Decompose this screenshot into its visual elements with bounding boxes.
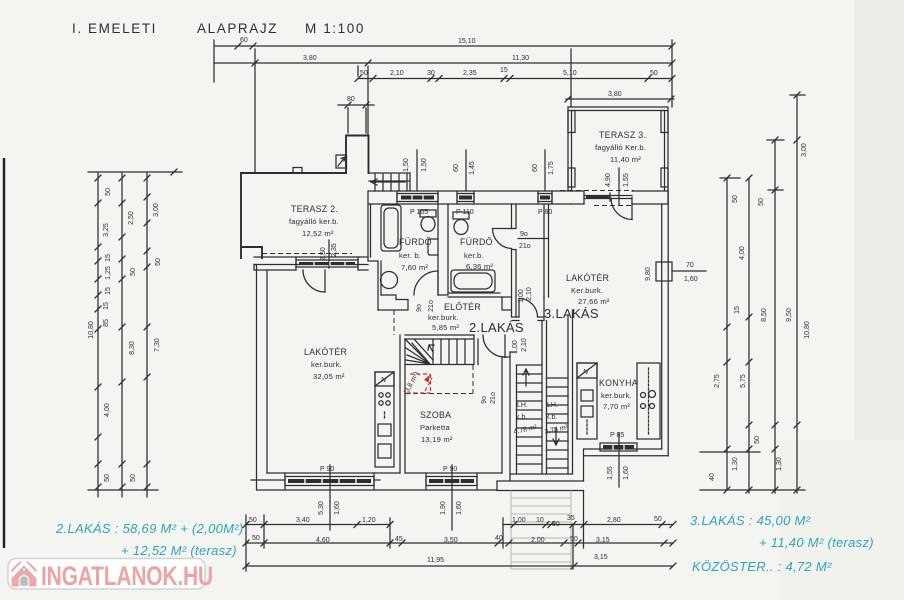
svg-text:Parketta: Parketta (420, 423, 450, 432)
svg-text:P 90: P 90 (443, 466, 457, 473)
svg-text:10,80: 10,80 (88, 321, 95, 339)
svg-text:7,30: 7,30 (154, 338, 161, 352)
svg-text:13,19 m²: 13,19 m² (421, 435, 453, 444)
svg-text:FÜRDŐ: FÜRDŐ (399, 237, 432, 247)
left dimension line 3 (144, 169, 177, 497)
furdo 7,60 washing machine (381, 272, 398, 289)
svg-text:k.b.: k.b. (546, 414, 557, 421)
bottom wall left section (257, 473, 503, 490)
svg-text:85: 85 (103, 319, 110, 327)
svg-text:2,50: 2,50 (320, 247, 327, 261)
svg-text:1,50: 1,50 (403, 158, 410, 172)
svg-text:3.LAKÁS : 45,00 M²: 3.LAKÁS : 45,00 M² (690, 513, 811, 528)
svg-text:60: 60 (240, 37, 248, 44)
top wall under terasz3 with sliding door (560, 191, 668, 206)
svg-text:Ker.burk.: Ker.burk. (571, 286, 603, 295)
svg-text:35: 35 (567, 515, 575, 522)
teal note 2.lakas (55, 521, 244, 558)
svg-text:2,00: 2,00 (531, 537, 545, 544)
svg-text:SZOBA: SZOBA (420, 410, 451, 420)
svg-text:11,30: 11,30 (512, 55, 529, 62)
svg-text:fagyálló ker.b.: fagyálló ker.b. (289, 217, 339, 226)
stairwell left flight (513, 365, 542, 464)
svg-text:1,90: 1,90 (440, 501, 447, 515)
svg-text:9o: 9o (416, 304, 423, 312)
svg-text:15: 15 (734, 306, 741, 314)
svg-text:90: 90 (552, 521, 560, 528)
svg-text:2.LAKÁS: 2.LAKÁS (469, 320, 524, 335)
svg-text:50: 50 (654, 516, 662, 523)
svg-text:50: 50 (754, 436, 761, 444)
top dimension line 3,80 / 11,30 (214, 55, 675, 66)
wall between the two bathrooms (438, 204, 448, 295)
svg-text:9,50: 9,50 (786, 308, 793, 322)
svg-text:4,00: 4,00 (739, 246, 746, 260)
kitchen strip in lakoter (375, 372, 394, 467)
svg-text:4,60: 4,60 (316, 537, 330, 544)
wall band under terasz2 (lakoter top wall) (254, 257, 368, 270)
svg-text:ker.b.: ker.b. (464, 251, 484, 260)
svg-text:LAKÓTÉR: LAKÓTÉR (304, 347, 347, 357)
right outer wall (662, 190, 669, 456)
teal note 3.lakas (690, 513, 874, 550)
svg-text:ker.burk.: ker.burk. (428, 313, 459, 322)
svg-text:3,50: 3,50 (444, 537, 458, 544)
svg-text:40: 40 (495, 535, 503, 542)
szoba label (420, 410, 453, 444)
internal stair of 2.lakas (403, 335, 478, 396)
konyha label (599, 378, 638, 411)
svg-text:2,80: 2,80 (607, 517, 621, 524)
right dimension line C (767, 137, 784, 493)
svg-text:50: 50 (252, 535, 260, 542)
right wall window pier (645, 262, 706, 283)
svg-text:INGATLANOK.HU: INGATLANOK.HU (41, 562, 213, 592)
svg-text:15: 15 (500, 67, 508, 74)
svg-text:50: 50 (155, 258, 162, 266)
svg-text:80: 80 (347, 96, 355, 103)
left wall of building (254, 265, 267, 491)
svg-text:7,60 m²: 7,60 m² (401, 263, 428, 272)
svg-text:50: 50 (130, 268, 137, 276)
bottom dimension vertical extensions (246, 491, 584, 571)
svg-text:1,55: 1,55 (623, 173, 630, 187)
svg-text:LH.: LH. (547, 402, 558, 409)
svg-text:70: 70 (686, 262, 694, 269)
right dimension bottom connector (700, 452, 805, 490)
svg-text:7,70 m²: 7,70 m² (603, 402, 630, 411)
svg-text:9,80: 9,80 (645, 267, 652, 281)
top dimension line 15,10 (214, 37, 675, 82)
svg-text:1,60: 1,60 (623, 466, 630, 480)
svg-text:50: 50 (104, 474, 111, 482)
left dimension line 1 (10,80 overall) (88, 172, 182, 497)
svg-text:KONYHA: KONYHA (599, 378, 638, 388)
svg-text:ker. b.: ker. b. (399, 251, 421, 260)
svg-text:3.LAKÁS: 3.LAKÁS (544, 306, 599, 321)
furdo 6,36 fixtures: toilet (453, 212, 469, 235)
door eloter to szoba corridor (481, 335, 505, 404)
svg-text:15,10: 15,10 (458, 38, 476, 45)
svg-text:32,05 m²: 32,05 m² (313, 372, 345, 381)
svg-text:3,15: 3,15 (594, 554, 608, 561)
window P80 top (538, 191, 552, 216)
svg-text:40: 40 (709, 473, 716, 481)
corridor door label (512, 338, 528, 354)
chimney protrusion (336, 136, 369, 174)
svg-text:P 80: P 80 (538, 209, 552, 216)
svg-text:2,75: 2,75 (714, 374, 721, 388)
svg-text:12,52 m²: 12,52 m² (302, 229, 334, 238)
svg-text:5,10: 5,10 (563, 70, 577, 77)
watermark text (41, 562, 213, 592)
ext line window P110 60 1,45 (453, 150, 476, 191)
svg-text:2,50: 2,50 (128, 211, 135, 225)
svg-text:2.LAKÁS : 58,69 M² + (2,00M²): 2.LAKÁS : 58,69 M² + (2,00M²) (55, 521, 244, 536)
svg-text:8,50: 8,50 (761, 308, 768, 322)
svg-text:11,40 m²: 11,40 m² (610, 155, 641, 164)
3.LAKAS label (544, 306, 599, 321)
left dimension line 2 (119, 172, 125, 497)
svg-text:LH.: LH. (517, 402, 528, 409)
konyha window (600, 432, 637, 487)
left dimension labels (88, 188, 162, 482)
wall lakoter/szoba (394, 310, 405, 473)
svg-text:3,00: 3,00 (801, 143, 808, 157)
svg-text:2,10: 2,10 (521, 338, 528, 352)
svg-text:1,20: 1,20 (362, 517, 376, 524)
svg-text:50: 50 (650, 70, 658, 77)
door terasz2 to lakoter (303, 270, 325, 292)
svg-text:1,30: 1,30 (776, 457, 783, 471)
svg-text:1,60: 1,60 (684, 276, 698, 283)
bottom dimension line middle (243, 535, 676, 546)
svg-text:50: 50 (249, 517, 257, 524)
svg-text:5,75: 5,75 (740, 374, 747, 388)
stairwell bottom wall (497, 474, 584, 491)
svg-text:5,30: 5,30 (318, 501, 325, 515)
main top wall band (369, 191, 572, 204)
svg-text:10: 10 (536, 517, 544, 524)
svg-text:8,30: 8,30 (129, 341, 136, 355)
svg-text:2,35: 2,35 (331, 243, 338, 257)
exterior stairs hatch (511, 491, 571, 570)
svg-text:1,50: 1,50 (421, 158, 428, 172)
svg-text:5,85 m²: 5,85 m² (432, 323, 459, 332)
svg-text:50: 50 (758, 198, 765, 206)
scan edge line left (3, 158, 5, 548)
svg-text:M 1:100: M 1:100 (305, 21, 365, 36)
bottom dimension line lower (243, 554, 676, 569)
right dimension line B (746, 175, 752, 493)
svg-text:2,35: 2,35 (463, 70, 477, 77)
furdo 6,36 bottom wall (448, 293, 502, 297)
top dimension line 50 2,10 30 2,35 15 5,10 50 (355, 67, 675, 82)
svg-text:21o: 21o (519, 243, 531, 250)
right dimension line D (790, 92, 805, 493)
svg-text:FÜRDŐ: FÜRDŐ (460, 237, 493, 247)
konyha right cabinet strip (637, 363, 660, 439)
top dimension extension lines (255, 40, 672, 173)
svg-text:2,10: 2,10 (390, 70, 404, 77)
svg-text:P 90: P 90 (320, 466, 334, 473)
svg-text:ELŐTÉR: ELŐTÉR (444, 302, 481, 312)
svg-text:ALAPRAJZ: ALAPRAJZ (197, 21, 278, 36)
svg-text:50: 50 (105, 188, 112, 196)
svg-text:15: 15 (103, 302, 110, 310)
stairwell left wall (502, 352, 517, 481)
svg-text:ker.burk.: ker.burk. (601, 391, 632, 400)
svg-text:3,00: 3,00 (153, 203, 160, 217)
stairwell divider wall (542, 321, 547, 475)
svg-text:k.b.: k.b. (516, 414, 527, 421)
svg-text:KÖZÖSTER.. : 4,72 M²: KÖZÖSTER.. : 4,72 M² (692, 559, 832, 574)
svg-text:1,60: 1,60 (334, 501, 341, 515)
furdo 6,36 label (460, 237, 493, 271)
stairwell right wall (568, 310, 573, 474)
konyha left cabinet strip (577, 363, 597, 439)
ext line window P80 60 1,75 (532, 150, 555, 191)
window P105 top (397, 191, 438, 216)
furdo 7,60 label (399, 237, 432, 272)
svg-text:+ 12,52 M² (terasz): + 12,52 M² (terasz) (121, 543, 237, 558)
svg-text:1,45: 1,45 (469, 161, 476, 175)
svg-text:+ 11,40 M² (terasz): + 11,40 M² (terasz) (759, 535, 874, 550)
terasz2 window dim 2,50 2,35 (320, 240, 338, 268)
terasz3 door dim 4,90 1,55 (605, 168, 630, 205)
svg-text:60: 60 (453, 164, 460, 172)
furdo 7,60 toilet (420, 210, 436, 232)
window P90 left (251, 465, 380, 530)
svg-text:30: 30 (427, 70, 435, 77)
svg-text:fagyálló Ker.b.: fagyálló Ker.b. (595, 143, 646, 152)
stair hatch by terasz2 (369, 173, 410, 191)
teal note kozoster (692, 559, 832, 574)
red escape route on stair (407, 374, 432, 393)
svg-text:4,00: 4,00 (104, 403, 111, 417)
svg-text:3,25: 3,25 (103, 223, 110, 237)
svg-text:21o: 21o (490, 392, 497, 404)
svg-text:6,36 m²: 6,36 m² (466, 262, 493, 271)
svg-text:TERASZ 2.: TERASZ 2. (291, 204, 338, 214)
svg-text:50: 50 (570, 536, 578, 543)
svg-text:1,25: 1,25 (105, 266, 112, 280)
lakoter left room label (304, 347, 347, 381)
lakoter right room label (566, 273, 610, 306)
svg-text:1,00: 1,00 (518, 289, 525, 303)
svg-text:I. EMELETI: I. EMELETI (72, 21, 157, 36)
svg-text:LAKÓTÉR: LAKÓTÉR (566, 273, 609, 283)
furdo 7,60 door (414, 271, 438, 312)
stairwell right flight (544, 378, 569, 468)
furdo 7,60 sink (428, 239, 438, 255)
svg-text:3,40: 3,40 (296, 517, 310, 524)
svg-text:1,60: 1,60 (456, 501, 463, 515)
svg-text:27,66 m²: 27,66 m² (578, 297, 610, 306)
svg-text:4,90: 4,90 (605, 173, 612, 187)
svg-text:11,95: 11,95 (427, 557, 444, 564)
svg-text:50: 50 (732, 195, 739, 203)
svg-text:3,80: 3,80 (303, 55, 317, 62)
svg-text:3,80: 3,80 (608, 91, 622, 98)
top dimension 80 (chimney niche) (338, 96, 374, 108)
left dimension bottom connector (88, 489, 158, 491)
svg-text:15: 15 (105, 254, 112, 262)
furdo 7,60 fixtures: bathtub (381, 205, 401, 251)
svg-text:P 85: P 85 (610, 432, 624, 439)
window P110 top (456, 191, 474, 216)
svg-text:1,75: 1,75 (548, 161, 555, 175)
svg-text:ker.burk.: ker.burk. (311, 360, 342, 369)
terasz 3 walls (568, 107, 668, 190)
terasz 2 room label (289, 204, 339, 238)
svg-text:21o: 21o (428, 300, 435, 312)
svg-text:10,80: 10,80 (804, 321, 811, 339)
svg-text:1,00: 1,00 (512, 517, 526, 524)
eloter label (428, 302, 481, 332)
svg-text:15: 15 (105, 287, 112, 295)
right dimension labels (709, 143, 811, 481)
ext line window P105 1,50 1,50 (403, 150, 428, 191)
closet column walls (512, 204, 549, 321)
bottom wall right section (584, 449, 669, 481)
svg-text:1,30: 1,30 (732, 457, 739, 471)
furdo 6,36 bathtub (451, 270, 495, 292)
wall left of bathroom (368, 191, 381, 310)
watermark house icon (10, 562, 38, 587)
svg-text:1,55: 1,55 (607, 466, 614, 480)
window P90 szoba (426, 465, 477, 530)
top dimension 3,80 over terasz3 (565, 91, 674, 102)
door terasz3 to lakoter (611, 198, 632, 220)
furdo 6,36 right wall and door (493, 204, 549, 317)
title text (72, 21, 365, 36)
svg-text:9o: 9o (481, 396, 488, 404)
furdo 7,60 bottom wall and step (378, 295, 408, 310)
2.LAKAS label (469, 320, 524, 335)
bottom dimension line upper (243, 515, 676, 528)
right dimension line A (720, 175, 740, 493)
svg-text:3,15: 3,15 (596, 537, 610, 544)
svg-text:2,10: 2,10 (526, 287, 533, 301)
watermark pill (8, 559, 205, 590)
svg-text:50: 50 (360, 70, 368, 77)
terasz 2 outline (241, 168, 352, 259)
svg-text:TERASZ 3.: TERASZ 3. (599, 130, 646, 140)
svg-text:9o: 9o (520, 231, 528, 238)
niche under closet / closet door (502, 287, 538, 317)
svg-text:60: 60 (532, 164, 539, 172)
terasz 3 room label (595, 130, 646, 164)
svg-text:45: 45 (395, 536, 403, 543)
svg-text:50: 50 (130, 474, 137, 482)
